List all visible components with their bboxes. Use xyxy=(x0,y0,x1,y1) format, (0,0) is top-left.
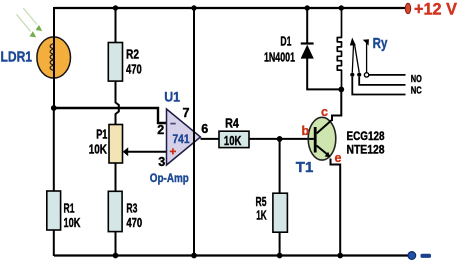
svg-text:Op-Amp: Op-Amp xyxy=(150,173,189,185)
svg-text:b: b xyxy=(302,124,310,138)
wire relay NO output xyxy=(369,74,406,76)
wire R5 top lead xyxy=(279,139,281,194)
svg-text:NO: NO xyxy=(411,74,422,85)
svg-text:U1: U1 xyxy=(164,88,180,104)
svg-text:R1: R1 xyxy=(64,201,75,216)
relay contact common xyxy=(350,73,354,77)
wire op-amp output pin6 xyxy=(201,138,220,140)
svg-text:2: 2 xyxy=(157,123,164,137)
wire R3 bottom lead xyxy=(115,232,117,256)
wire divider node to op-amp pin2 xyxy=(54,108,167,123)
svg-text:470: 470 xyxy=(126,62,142,77)
svg-text:10K: 10K xyxy=(64,215,81,230)
svg-text:741: 741 xyxy=(173,132,190,146)
node R4 / R5 xyxy=(277,136,283,142)
relay contact NC dot xyxy=(357,73,361,77)
wire R2 top lead xyxy=(115,8,117,43)
relay contact NO open circle xyxy=(364,73,368,77)
wire P1 to R3 xyxy=(115,163,117,192)
svg-text:T1: T1 xyxy=(296,159,314,176)
wire R2 to P1 with crossover hop xyxy=(116,81,119,125)
node bottom rail / pin4 xyxy=(191,253,197,259)
negative terminal dash xyxy=(421,254,432,258)
wire bottom rail 0V xyxy=(54,254,408,256)
svg-text:10K: 10K xyxy=(89,142,108,157)
wire emitter to bottom rail xyxy=(331,159,341,257)
light arrow 2 xyxy=(16,14,36,37)
relay NO post with arrow xyxy=(363,39,369,72)
resistor R3 xyxy=(108,191,142,231)
node top rail / relay xyxy=(339,5,344,10)
diode D1 xyxy=(264,34,314,65)
wire relay NC output xyxy=(359,77,405,85)
svg-text:Ry: Ry xyxy=(373,35,388,52)
svg-text:3: 3 xyxy=(158,155,165,169)
relay moving blade xyxy=(355,44,360,73)
resistor R2 xyxy=(108,43,142,82)
svg-text:1K: 1K xyxy=(256,208,267,223)
node D1 / coil / collector xyxy=(338,87,344,93)
photoresistor LDR1 body xyxy=(37,7,71,108)
svg-text:D1: D1 xyxy=(280,34,291,49)
svg-text:c: c xyxy=(321,105,328,119)
node bottom rail / emitter xyxy=(337,253,343,259)
wire D1 top lead xyxy=(306,8,308,44)
svg-text:P1: P1 xyxy=(96,127,107,142)
wire base into body xyxy=(309,138,314,140)
svg-text:1N4001: 1N4001 xyxy=(264,50,295,65)
wire R4 to transistor base xyxy=(249,138,309,140)
transistor T1 body xyxy=(308,117,336,160)
wire D1 bottom lead to coil node xyxy=(307,58,341,89)
svg-text:470: 470 xyxy=(126,215,142,230)
wire R5 bottom lead xyxy=(279,232,281,256)
resistor R5 xyxy=(256,193,288,232)
node bottom rail / R5 xyxy=(277,253,283,259)
light arrow 1 xyxy=(23,8,42,31)
wire U1 supply pins 7/4 through body xyxy=(193,8,195,256)
+12V supply terminal dot xyxy=(405,3,410,13)
svg-text:NC: NC xyxy=(411,86,422,97)
svg-text:ECG128: ECG128 xyxy=(347,131,386,143)
node bottom rail / R3 xyxy=(113,253,119,259)
P1 wiper arrow and wire to pin3 xyxy=(123,147,167,156)
wire R1 bottom lead xyxy=(53,230,55,256)
svg-text:10K: 10K xyxy=(224,133,242,148)
svg-text:+12 V: +12 V xyxy=(414,0,458,19)
node A divider/LDR/R1 junction xyxy=(51,105,57,111)
svg-text:e: e xyxy=(335,151,342,165)
relay coil Ry xyxy=(337,8,341,89)
node top rail / D1 xyxy=(305,5,310,10)
negative supply terminal dot xyxy=(408,252,416,260)
wire top rail +12V xyxy=(54,7,406,9)
svg-text:7: 7 xyxy=(183,106,190,120)
svg-text:6: 6 xyxy=(201,122,208,136)
svg-text:NTE128: NTE128 xyxy=(347,145,386,157)
svg-text:R2: R2 xyxy=(126,47,139,62)
wire R1 top lead xyxy=(53,108,55,192)
resistor R4 xyxy=(219,116,249,149)
svg-text:LDR1: LDR1 xyxy=(1,49,33,66)
node top rail / R2 xyxy=(113,5,118,10)
wire relay common output xyxy=(352,77,405,95)
op-amp U1 triangle xyxy=(167,109,201,165)
wire coil node to collector xyxy=(332,89,341,121)
potentiometer P1 body xyxy=(89,125,123,164)
resistor R1 xyxy=(47,191,81,230)
svg-text:R3: R3 xyxy=(126,201,137,216)
node top rail / pin7 xyxy=(191,5,196,10)
relay armature with arrow xyxy=(350,38,356,73)
svg-text:R4: R4 xyxy=(225,116,239,131)
